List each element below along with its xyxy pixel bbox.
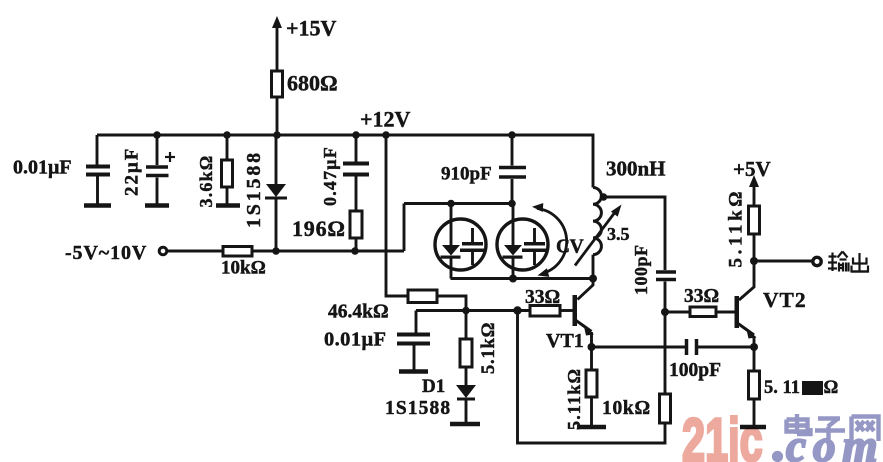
svg-text:100pF: 100pF bbox=[669, 360, 721, 381]
svg-text:-5V~10V: -5V~10V bbox=[65, 242, 147, 264]
svg-text:196Ω: 196Ω bbox=[292, 216, 346, 241]
svg-text:10kΩ: 10kΩ bbox=[221, 258, 266, 279]
svg-text:0.01μF: 0.01μF bbox=[324, 329, 386, 351]
svg-text:10kΩ: 10kΩ bbox=[602, 398, 651, 419]
svg-text:0.01μF: 0.01μF bbox=[13, 157, 72, 179]
svg-text:910pF: 910pF bbox=[441, 164, 492, 185]
svg-text:0.47μF: 0.47μF bbox=[320, 146, 340, 206]
svg-text:300nH: 300nH bbox=[606, 157, 666, 181]
svg-text:5. 11: 5. 11 bbox=[764, 378, 800, 398]
svg-text:680Ω: 680Ω bbox=[287, 71, 338, 96]
svg-text:1S1588: 1S1588 bbox=[243, 150, 265, 228]
svg-text:Ω: Ω bbox=[824, 378, 839, 398]
svg-text:3.5: 3.5 bbox=[607, 224, 630, 244]
svg-text:com: com bbox=[786, 421, 883, 462]
svg-text:5.11kΩ: 5.11kΩ bbox=[726, 188, 747, 268]
svg-text:+5V: +5V bbox=[733, 157, 771, 181]
svg-text:33Ω: 33Ω bbox=[684, 286, 719, 307]
svg-text:21ic: 21ic bbox=[682, 407, 763, 462]
svg-text:5.1kΩ: 5.1kΩ bbox=[479, 322, 499, 374]
svg-text:100pF: 100pF bbox=[631, 244, 651, 295]
svg-text:22μF: 22μF bbox=[122, 147, 143, 196]
svg-text:D1: D1 bbox=[422, 376, 445, 397]
svg-text:VT1: VT1 bbox=[546, 330, 584, 352]
svg-text:3.6kΩ: 3.6kΩ bbox=[196, 155, 216, 208]
svg-text:VT2: VT2 bbox=[763, 288, 807, 312]
svg-text:46.4kΩ: 46.4kΩ bbox=[328, 302, 389, 323]
svg-text:CV: CV bbox=[556, 237, 584, 258]
svg-text:5.11kΩ: 5.11kΩ bbox=[564, 368, 584, 430]
svg-text:1S1588: 1S1588 bbox=[385, 398, 451, 419]
svg-text:+12V: +12V bbox=[360, 107, 411, 132]
svg-text:33Ω: 33Ω bbox=[525, 287, 560, 308]
svg-text:+15V: +15V bbox=[286, 16, 337, 41]
